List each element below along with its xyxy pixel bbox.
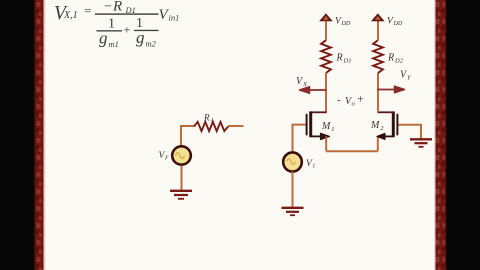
wire VDD1 to RD1 (325, 21, 327, 41)
M1 gate lead (293, 125, 306, 152)
M2 channel bar (392, 111, 395, 137)
resistor RD2 vertical zigzag (373, 40, 383, 73)
svg-text:R: R (203, 113, 210, 123)
svg-text:1: 1 (312, 163, 315, 169)
svg-text:R: R (336, 53, 343, 64)
label VDD left (335, 17, 351, 28)
label RD1 (336, 53, 352, 65)
M1 gate bar (306, 114, 308, 136)
source VF circle (172, 146, 191, 164)
label R1 (203, 113, 214, 125)
wire V1 to ground (292, 172, 294, 207)
label VX (296, 76, 308, 88)
svg-text:=: = (84, 3, 91, 18)
M2 drain wire up to RD2 (377, 73, 379, 113)
wire left of R1 with corner down (181, 126, 194, 146)
M2 drain jog (377, 111, 393, 113)
common source rail (326, 150, 378, 152)
svg-text:M: M (321, 121, 331, 132)
M2 source riser (377, 136, 379, 151)
VDD supply symbol left (320, 14, 331, 21)
svg-text:1: 1 (211, 118, 214, 124)
svg-text:g: g (99, 29, 108, 48)
svg-text:M: M (370, 120, 380, 131)
svg-text:-: - (337, 94, 341, 106)
ground at M2 gate (410, 139, 432, 147)
wire RD1 down to M1 drain (325, 73, 327, 113)
wire VF to ground (181, 166, 183, 191)
svg-text:−: − (104, 0, 112, 15)
svg-text:g: g (136, 28, 145, 47)
label VDD right (387, 17, 403, 28)
svg-text:1: 1 (108, 17, 115, 32)
M1 channel bar (309, 111, 312, 137)
resistor R1 zigzag (194, 122, 228, 131)
M1 drain jog (311, 111, 327, 113)
label M1 (321, 121, 335, 133)
differential output - Vo + (337, 92, 364, 108)
svg-text:m1: m1 (109, 39, 119, 49)
transistor M1 (306, 111, 330, 139)
M1 source drop wire (325, 136, 327, 151)
label M2 (370, 120, 384, 132)
svg-text:1: 1 (331, 126, 334, 133)
node VY arrow (377, 86, 404, 93)
svg-text:+: + (357, 92, 364, 106)
formula V_X,1 (54, 0, 179, 49)
svg-text:R: R (387, 53, 394, 64)
transistor M2 (377, 111, 398, 139)
right black band (447, 0, 480, 270)
svg-text:R: R (112, 0, 122, 15)
main fraction bar (95, 13, 159, 14)
resistor RD1 vertical zigzag (321, 40, 331, 73)
M1 source lead with arrow (311, 135, 322, 137)
ground under V1 (282, 208, 304, 215)
svg-text:D2: D2 (394, 58, 404, 65)
svg-text:in1: in1 (169, 13, 180, 23)
M2 gate bar (396, 114, 398, 136)
node VX arrow (300, 87, 327, 94)
VDD supply symbol right (372, 14, 383, 21)
right maroon border stripe (434, 0, 447, 270)
source V1 circle (283, 152, 302, 171)
wire right of R1 (228, 125, 244, 127)
ground under VF (170, 191, 192, 199)
label VF (159, 151, 170, 162)
svg-text:F: F (164, 156, 169, 162)
svg-text:X,1: X,1 (63, 10, 78, 21)
svg-text:DD: DD (393, 21, 403, 27)
left black band (0, 0, 34, 270)
svg-text:+: + (124, 23, 131, 37)
label RD2 (387, 53, 404, 65)
wire RD2 to VDD2 (377, 21, 379, 41)
svg-text:m2: m2 (146, 39, 157, 49)
label V1 (306, 159, 315, 170)
M2 source lead with arrow (384, 135, 393, 137)
svg-text:D1: D1 (343, 58, 352, 65)
svg-text:DD: DD (341, 21, 351, 27)
M2 gate lead to ground (398, 125, 421, 139)
left maroon border stripe (34, 0, 45, 270)
label VY (400, 70, 412, 82)
